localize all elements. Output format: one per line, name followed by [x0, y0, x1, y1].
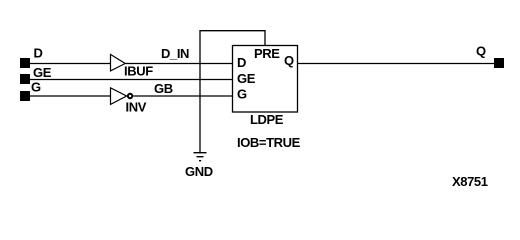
svg-text:G: G	[237, 87, 247, 102]
svg-text:GND: GND	[185, 164, 213, 179]
svg-text:GE: GE	[33, 65, 52, 80]
wire GE: pin GE to LDPE GE pin	[30, 79, 233, 81]
svg-text:Q: Q	[476, 44, 486, 59]
svg-text:IBUF: IBUF	[124, 64, 153, 79]
svg-text:PRE: PRE	[254, 46, 280, 61]
svg-text:G: G	[31, 80, 41, 95]
svg-text:D: D	[237, 55, 246, 70]
input pin G	[20, 91, 30, 101]
latch U1 LDPE body	[233, 46, 298, 113]
svg-text:D_IN: D_IN	[161, 46, 189, 61]
inverter INV	[111, 88, 127, 105]
wire Q: LDPE Q pin to output pin Q	[298, 63, 495, 65]
svg-text:D: D	[34, 46, 43, 61]
wire GB: INV output to LDPE G pin	[133, 95, 233, 97]
svg-text:INV: INV	[126, 100, 147, 115]
wire D: pin D to IBUF input	[30, 63, 111, 65]
wire G: pin G to INV input	[30, 95, 111, 97]
output pin Q	[494, 58, 504, 68]
svg-text:GB: GB	[154, 81, 173, 96]
buffer IBUF	[111, 54, 126, 71]
svg-text:X8751: X8751	[452, 174, 488, 189]
ground symbol	[194, 153, 207, 161]
svg-text:GE: GE	[237, 71, 256, 86]
svg-text:IOB=TRUE: IOB=TRUE	[237, 135, 301, 150]
svg-text:LDPE: LDPE	[250, 112, 284, 127]
input pin GE	[20, 74, 30, 84]
wire D_IN: IBUF output to LDPE D pin	[125, 63, 233, 65]
wire GND net: up from ground, across, down to PRE pin	[200, 31, 265, 153]
input pin D	[20, 58, 30, 68]
svg-text:Q: Q	[284, 53, 294, 68]
inverter INV bubble	[128, 94, 132, 98]
